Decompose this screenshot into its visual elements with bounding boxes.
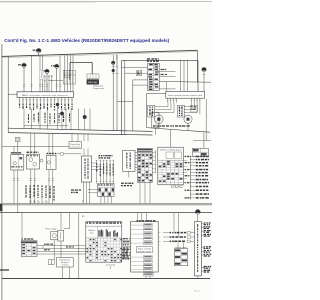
svg-text:Cont'd Fig. No. 1 C-1 4WD Vehi: Cont'd Fig. No. 1 C-1 4WD Vehicles (RB20… [4, 38, 169, 43]
relay B caption [27, 152, 30, 153]
svg-text:2: 2 [47, 202, 48, 204]
wire actuator frame left [146, 94, 148, 128]
wire actuator frame top [147, 93, 166, 95]
wire color labels below bus [19, 103, 73, 110]
control unit TR2 [123, 150, 135, 171]
relay frame [70, 61, 92, 63]
inter-section stubs [30, 200, 48, 204]
TL wire labels [44, 244, 46, 245]
control unit box U1 [166, 91, 205, 98]
page top edge [0, 1, 212, 3]
door switch label rows [158, 213, 194, 243]
page background [0, 0, 212, 300]
relay box B [27, 154, 40, 169]
wire mid horizontal [117, 101, 133, 103]
cross bus short wire [24, 125, 68, 127]
svg-text:BR-31: BR-31 [194, 291, 201, 293]
TL feed wire [21, 213, 23, 241]
wire pair mid [112, 55, 114, 131]
motor left M1 [155, 115, 164, 124]
wire inner frame top [122, 59, 198, 61]
svg-text:→: → [17, 243, 19, 246]
wire T1 vert [165, 82, 167, 92]
connector grid left of relay [64, 70, 69, 78]
wire to table drop [132, 80, 134, 131]
motor right wires [184, 103, 200, 131]
wire inner frame left drop [121, 60, 123, 135]
BE bottom wires [61, 267, 63, 279]
relay box label [87, 79, 99, 84]
wire R3 feed left [170, 129, 172, 147]
control unit pins [167, 98, 201, 103]
wire T1 right 2 [159, 76, 175, 78]
mid wire ticks [112, 67, 119, 74]
svg-text:Check conn: Check conn [175, 247, 187, 249]
relay C caption [47, 153, 49, 154]
long wire x78 [78, 213, 80, 279]
tick pairs above bus [23, 84, 61, 86]
junction circle C6 [40, 159, 43, 162]
engine room box BE [57, 258, 74, 268]
wire V1 stub [154, 128, 156, 135]
wire D1 feeds [71, 134, 73, 142]
svg-text:connector: connector [70, 145, 80, 148]
connector stubs below bus [19, 97, 74, 103]
relay pin cells [87, 74, 99, 79]
junction dot D [60, 112, 63, 115]
svg-text:sensor conn: sensor conn [138, 251, 151, 253]
check connector CGb [174, 249, 188, 266]
separator line 2 [0, 212, 212, 214]
wire inner frame parallel drop [124, 60, 126, 134]
bottom rail [2, 278, 210, 280]
wire rail stub [116, 55, 118, 61]
actuator bottom caption [153, 125, 155, 126]
wire color column [96, 160, 115, 184]
harness tree right [189, 156, 191, 200]
bar right labels [201, 222, 211, 272]
wire table stub upper [133, 79, 148, 81]
check connector CB [98, 184, 114, 197]
svg-text:2: 2 [43, 202, 44, 204]
TR2 to grid wires [135, 153, 137, 168]
fusible link balloon B4 [55, 64, 59, 68]
svg-text:2: 2 [31, 202, 32, 204]
relay wire ticks [13, 179, 54, 181]
wire right edge of outer frame [196, 50, 198, 81]
connector box R4 [192, 148, 208, 156]
cross bus wire upper [8, 128, 152, 131]
svg-text:RELAY: RELAY [88, 81, 99, 84]
wire inner frame right drop [197, 60, 199, 91]
GT right rail [155, 150, 157, 173]
wire mid-left horizontal [2, 145, 69, 147]
junction dot C [112, 69, 115, 72]
sensor box left [148, 105, 155, 117]
connector circle C5 [60, 152, 63, 155]
wire T1 right 1 [159, 71, 175, 73]
table T1 header [147, 58, 150, 59]
pin grid table GT [137, 148, 152, 182]
BB2 bottom label [144, 273, 154, 276]
svg-text:To rear: To rear [155, 120, 157, 126]
balloon mid pair [111, 61, 115, 65]
relay RL2 feeds [60, 213, 62, 231]
control unit TR1 [82, 156, 92, 182]
TR2 bottom stub [128, 171, 130, 177]
svg-text:ABS actuator control unit harn: ABS actuator control unit harness [22, 94, 68, 97]
balloon right frame [202, 67, 206, 71]
connector cell grid top [63, 70, 75, 84]
TR1 bottom wires [83, 182, 85, 204]
svg-text:Rear speed sensor control unit: Rear speed sensor control unit [168, 94, 203, 97]
wire T1 stub B [125, 72, 148, 74]
BB2 top stubs [137, 213, 139, 222]
separator smudge [0, 203, 212, 205]
label fuse rating [39, 70, 43, 79]
wire bus feed [8, 93, 17, 95]
relay feed wires [14, 133, 53, 155]
relay A caption [11, 152, 14, 153]
wire R3 feed right [203, 132, 205, 149]
TR2 caption [121, 183, 124, 184]
GT bottom stubs [139, 182, 141, 203]
TR1 to column stubs [92, 162, 97, 164]
svg-text:2: 2 [35, 202, 36, 204]
balloon bottom right [195, 209, 200, 214]
TL caption [22, 238, 23, 239]
left edge dash [0, 269, 9, 270]
CB stubs [101, 196, 112, 203]
TL wires right [37, 246, 86, 254]
table T1 pin list [148, 63, 160, 90]
CB left wires [88, 189, 98, 191]
svg-text:2: 2 [39, 202, 40, 204]
relay RL2 [51, 232, 58, 240]
small box left of T1 [137, 71, 142, 76]
bottom junction box BB2 [131, 222, 159, 272]
TR1 caption below [71, 189, 74, 190]
data link box D1 [69, 142, 81, 149]
left edge dark blob [0, 204, 2, 211]
tick marks under balloons [44, 75, 53, 92]
BB2 left labels [122, 249, 129, 260]
wire long right horizontal [159, 81, 211, 84]
wires into control unit top [180, 60, 182, 91]
junction dot B [83, 115, 87, 119]
connector sym K1 [16, 137, 21, 141]
wire column caption [99, 155, 101, 156]
R3 suction circles [171, 185, 174, 188]
page left edge [1, 44, 3, 300]
svg-text:(Engine room): (Engine room) [93, 87, 104, 90]
svg-text:Valve relay box: Valve relay box [160, 150, 182, 152]
harness labels mid [28, 113, 70, 124]
left harness labels [25, 185, 54, 201]
wires dropping to cross bus [24, 109, 90, 131]
CGb feeds [177, 243, 179, 249]
wire main power rail [2, 50, 197, 56]
relay box A [11, 155, 24, 170]
wire table stub lower [133, 84, 148, 86]
junction dot A [56, 103, 59, 106]
BB2 top caption [137, 220, 138, 221]
valve operation table TB [86, 222, 122, 263]
TB fan to box [122, 238, 131, 259]
svg-text:(suction): (suction) [106, 264, 116, 267]
connector CN2 [48, 260, 51, 265]
relay RL2 outputs [53, 240, 55, 260]
side connector bar [195, 222, 202, 276]
sensor box right [177, 105, 184, 117]
valve table R3 [158, 147, 184, 185]
wire T1 stub A [122, 67, 148, 69]
svg-text:Rear relay: Rear relay [45, 229, 56, 231]
actuator bottom rail [147, 128, 211, 133]
bar bottom stem [197, 276, 199, 279]
wire right short lower [193, 140, 211, 142]
motor right M2 [184, 115, 192, 123]
aux box right [191, 105, 198, 112]
relay output wires [14, 169, 53, 213]
svg-text:Data link: Data link [70, 143, 80, 146]
vbox V1 [152, 112, 159, 128]
relay box C [47, 155, 57, 169]
svg-text:comp.): comp.) [61, 264, 69, 266]
wires rail to actuator bus [32, 55, 74, 92]
fusible link balloon B3 [45, 69, 49, 73]
fusible link balloon B2 [22, 63, 26, 67]
cross bus wire lower [8, 133, 152, 135]
fusible link balloon B1 [36, 48, 41, 53]
wires into TR1 [83, 149, 85, 156]
wire right vertical lower [205, 99, 207, 141]
wire T1 right 3 [159, 88, 175, 90]
wire left rail drop [7, 56, 9, 132]
bottom left table TL [21, 241, 37, 257]
motor left wires [155, 103, 174, 129]
ABS actuator bus box [17, 92, 73, 98]
